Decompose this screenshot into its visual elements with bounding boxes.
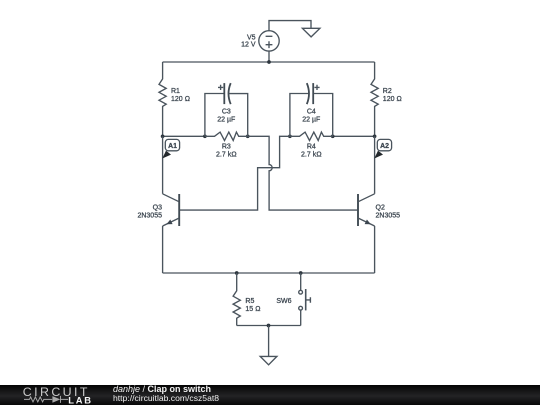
ground (top) — [302, 28, 320, 37]
junction C4 right — [331, 134, 335, 138]
svg-text:A2: A2 — [380, 143, 389, 150]
node flag A1 — [162, 139, 179, 158]
label R2 — [383, 88, 402, 103]
wire left rail mid — [162, 136, 164, 194]
resistor R2 — [371, 62, 378, 136]
capacitor C4 — [290, 83, 333, 136]
svg-text:120 Ω: 120 Ω — [171, 96, 190, 103]
svg-text:R1: R1 — [171, 88, 180, 95]
svg-text:R4: R4 — [307, 144, 316, 151]
label C3 — [217, 109, 235, 124]
junction C4 left — [288, 134, 292, 138]
voltage source V5 — [259, 31, 279, 51]
transistor Q2 — [358, 194, 375, 273]
wire cross-coupling R3 right to Q2 base (with hop) — [248, 136, 358, 210]
svg-text:R3: R3 — [222, 144, 231, 151]
svg-text:12 V: 12 V — [241, 42, 256, 49]
svg-text:Q3: Q3 — [153, 205, 162, 212]
resistor R4 — [290, 132, 333, 140]
node flag A2 — [374, 139, 391, 158]
CircuitLab logo — [0, 385, 100, 405]
junction A1 node — [161, 134, 165, 138]
junction V5/top rail — [267, 60, 271, 64]
label C4 — [302, 109, 320, 124]
svg-text:2N3055: 2N3055 — [376, 213, 401, 220]
wire right node row — [333, 135, 375, 137]
svg-text:2.7 kΩ: 2.7 kΩ — [301, 152, 322, 159]
svg-text:Q2: Q2 — [376, 205, 385, 212]
label Q3 — [137, 205, 162, 220]
resistor R1 — [159, 62, 166, 136]
label R4 — [301, 144, 322, 159]
resistor R5 — [233, 273, 240, 326]
svg-text:SW6: SW6 — [276, 298, 291, 305]
wire to ground — [268, 326, 270, 357]
junction SW6 top — [299, 271, 303, 275]
svg-text:C3: C3 — [222, 109, 231, 116]
wire top rail — [163, 61, 375, 63]
label R1 — [171, 88, 190, 103]
footer bar — [0, 385, 540, 405]
transistor Q3 — [163, 194, 180, 273]
label Q2 — [376, 205, 401, 220]
svg-text:22 µF: 22 µF — [302, 117, 320, 124]
svg-text:LAB: LAB — [68, 394, 93, 405]
junction ground — [267, 324, 271, 328]
svg-text:R5: R5 — [245, 298, 254, 305]
footer text — [113, 385, 219, 403]
svg-text:R2: R2 — [383, 88, 392, 95]
label V5 value — [241, 35, 256, 49]
junction R5 top — [235, 271, 239, 275]
label R5 — [245, 298, 260, 313]
svg-text:A1: A1 — [168, 143, 177, 150]
ground (bottom) — [260, 356, 277, 364]
svg-text:2.7 kΩ: 2.7 kΩ — [216, 152, 237, 159]
svg-text:C4: C4 — [307, 109, 316, 116]
capacitor C3 — [205, 83, 248, 136]
svg-text:120 Ω: 120 Ω — [383, 96, 402, 103]
label SW6 — [276, 298, 291, 305]
label R3 — [216, 144, 237, 159]
wire V5 top to ground — [269, 21, 311, 31]
junction C3 right — [246, 134, 250, 138]
wire V5 bottom — [268, 51, 270, 62]
junction A2 node — [373, 134, 377, 138]
junction C3 left — [203, 134, 207, 138]
svg-text:22 µF: 22 µF — [217, 117, 235, 124]
svg-text:15 Ω: 15 Ω — [245, 306, 260, 313]
resistor R3 — [205, 132, 248, 140]
wire left node row — [163, 135, 205, 137]
wire cross-coupling R4 left to Q3 base — [180, 136, 290, 210]
switch SW6 — [299, 273, 311, 326]
wire bottom loop — [237, 325, 301, 327]
svg-text:2N3055: 2N3055 — [137, 213, 162, 220]
wire right rail mid — [374, 136, 376, 194]
wire bottom rail — [163, 272, 375, 274]
